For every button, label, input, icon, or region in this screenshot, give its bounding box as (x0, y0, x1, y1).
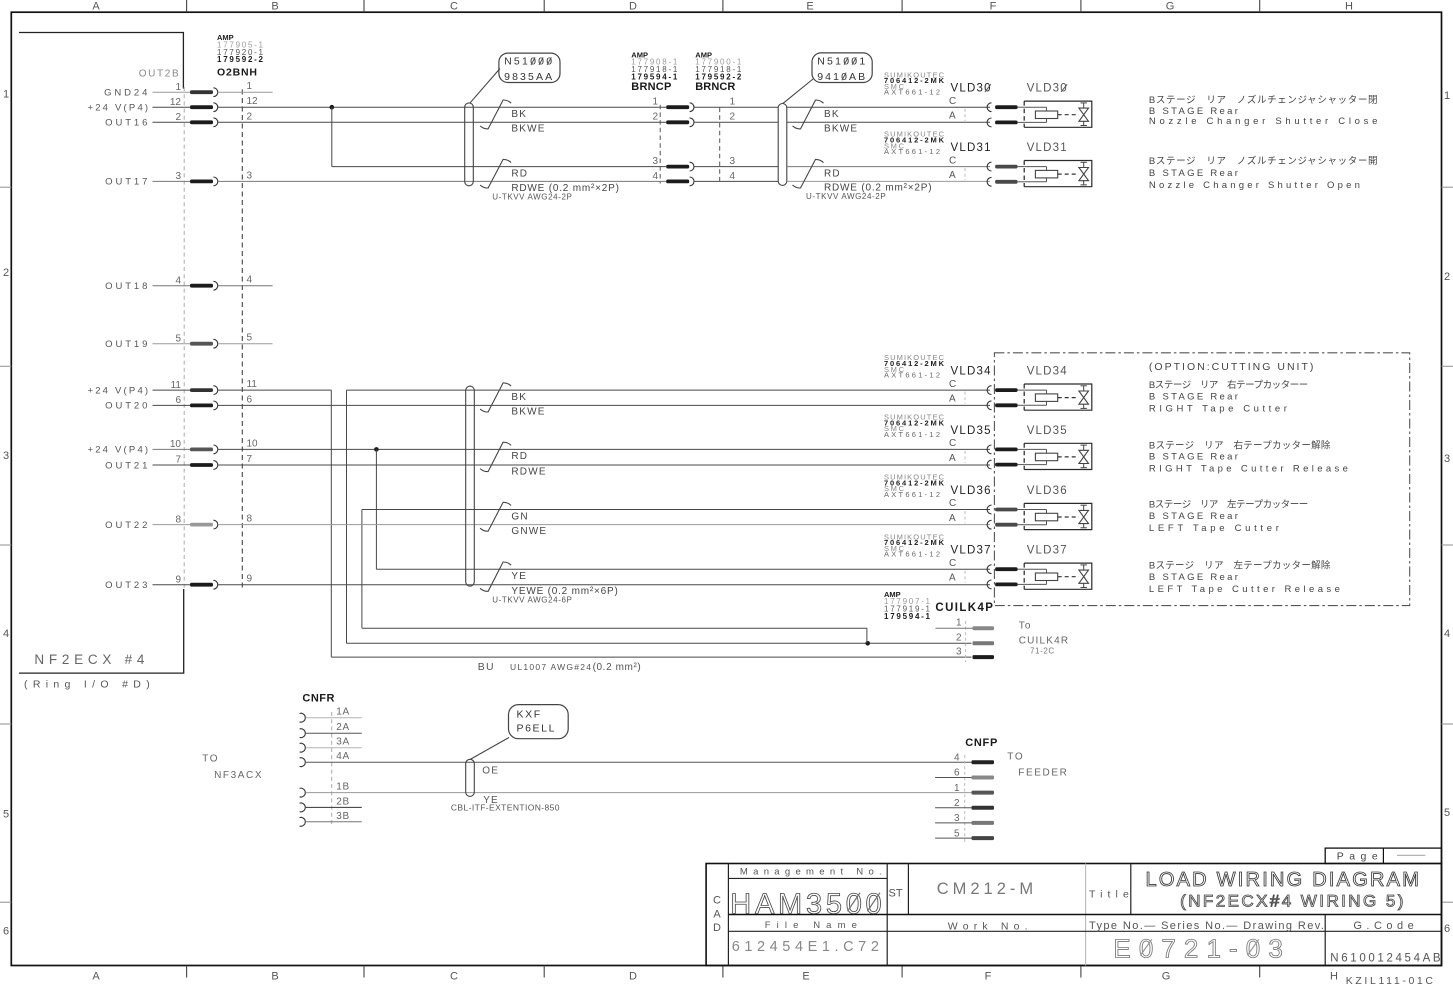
svg-text:VLD36: VLD36 (951, 485, 992, 497)
svg-text:OUT16: OUT16 (105, 118, 150, 129)
svg-text:VLD36: VLD36 (1027, 485, 1068, 497)
svg-text:E0721-03: E0721-03 (1113, 934, 1282, 964)
junction CUILK4P pin2 node (865, 641, 870, 646)
svg-text:8: 8 (247, 514, 253, 525)
svg-text:VLD34: VLD34 (1027, 366, 1068, 378)
svg-text:10: 10 (247, 438, 259, 449)
svg-text:GNWE: GNWE (511, 526, 547, 537)
svg-text:4: 4 (175, 275, 181, 286)
svg-text:VLD31: VLD31 (951, 142, 992, 154)
svg-text:RD: RD (824, 168, 841, 179)
svg-text:OUT18: OUT18 (105, 281, 150, 292)
svg-text:3A: 3A (336, 737, 350, 748)
svg-text:B STAGE Rear: B STAGE Rear (1149, 511, 1238, 522)
VLD37 contact A (987, 580, 991, 589)
solenoid valve VLD30 (1024, 101, 1092, 127)
cable tag KXF P6ELL (509, 705, 569, 739)
svg-text:7: 7 (247, 454, 253, 465)
svg-text:Bステージ リア 右テープカッターー: Bステージ リア 右テープカッターー (1149, 379, 1308, 391)
svg-text:OE: OE (482, 765, 499, 776)
svg-text:9: 9 (247, 574, 253, 585)
solenoid valve VLD36 (1024, 503, 1092, 529)
svg-text:BKWE: BKWE (511, 407, 545, 418)
frame zone ticks (0, 186, 11, 188)
svg-text:C: C (949, 379, 956, 390)
svg-text:A: A (949, 111, 956, 122)
svg-text:CBL-ITF-EXTENTION-850: CBL-ITF-EXTENTION-850 (451, 802, 560, 812)
svg-text:5: 5 (3, 809, 9, 821)
svg-text:A: A (92, 1, 100, 13)
solenoid valve VLD34 (1024, 384, 1092, 410)
title block vertical dividers (727, 864, 729, 966)
svg-text:RD: RD (511, 451, 528, 462)
svg-text:BKWE: BKWE (824, 124, 858, 135)
svg-text:A: A (949, 453, 956, 464)
svg-text:AXT661-12: AXT661-12 (884, 371, 940, 380)
svg-text:BRNCR: BRNCR (695, 81, 735, 93)
svg-text:3: 3 (247, 170, 253, 181)
option cutting unit dash-dot box (994, 353, 1409, 606)
BRNCP dashed boundary (659, 105, 661, 184)
svg-text:1: 1 (954, 783, 960, 794)
svg-text:+24 V(P4): +24 V(P4) (87, 103, 150, 114)
wire +24V pin12 to BRNCP pin1 (BK) (218, 106, 666, 108)
svg-text:(OPTION:CUTTING UNIT): (OPTION:CUTTING UNIT) (1149, 361, 1314, 373)
svg-text:CUILK4R: CUILK4R (1019, 636, 1070, 647)
svg-text:D: D (629, 971, 637, 983)
svg-text:4: 4 (3, 628, 9, 640)
VLD36 connector dashed boundary (964, 511, 966, 523)
svg-text:LEFT Tape Cutter Release: LEFT Tape Cutter Release (1149, 584, 1340, 595)
O2BNH board-side dashed boundary (183, 87, 185, 590)
VLD37 contact C (987, 565, 991, 574)
svg-text:Bステージ リア 左テープカッター解除: Bステージ リア 左テープカッター解除 (1149, 560, 1331, 572)
svg-text:A: A (949, 170, 956, 181)
svg-text:BU: BU (478, 661, 495, 673)
svg-text:OUT19: OUT19 (105, 339, 150, 350)
svg-text:C: C (949, 438, 956, 449)
svg-text:1: 1 (1444, 90, 1450, 102)
wire OUT21 to VLD35 A (RDWE) (218, 464, 990, 466)
svg-text:2B: 2B (336, 796, 350, 807)
svg-text:C: C (450, 1, 458, 13)
svg-text:OUT20: OUT20 (105, 401, 150, 412)
svg-text:4: 4 (730, 171, 736, 182)
title block outline (706, 864, 1441, 966)
wire +24V pin10 to VLD35 C (RD) (218, 448, 990, 450)
wire OUT23 to VLD37 A (YEWE) (218, 584, 990, 586)
svg-text:OUT22: OUT22 (105, 520, 150, 531)
cable sheath marker 6P cable (466, 386, 475, 586)
svg-text:AXT661-12: AXT661-12 (884, 550, 940, 559)
svg-text:C: C (450, 971, 458, 983)
cable sheath marker N51001 (778, 104, 787, 186)
VLD35 contact A (987, 460, 991, 469)
svg-text:12: 12 (170, 97, 182, 108)
cable tag N51001 9410AB (812, 53, 872, 83)
svg-text:OUT2B: OUT2B (139, 69, 179, 80)
svg-text:OUT23: OUT23 (105, 580, 150, 591)
svg-text:A: A (713, 908, 721, 920)
svg-text:VLD35: VLD35 (1027, 425, 1068, 437)
svg-text:A: A (92, 971, 100, 983)
svg-text:H: H (1330, 971, 1338, 983)
cable sheath marker N51000 (465, 103, 474, 186)
wire designation BK/BKWE mid (480, 383, 511, 412)
CNFR pin 4A (300, 758, 306, 767)
svg-text:TO: TO (202, 754, 219, 765)
NF2ECX #4 board outline (19, 33, 183, 89)
svg-text:AXT661-12: AXT661-12 (884, 147, 940, 156)
svg-text:5: 5 (247, 333, 253, 344)
cable sheath marker KXF (466, 759, 475, 796)
svg-text:B: B (271, 971, 278, 983)
svg-text:A: A (949, 513, 956, 524)
svg-text:1: 1 (175, 82, 181, 93)
junction +24V pin10 node (374, 447, 379, 452)
VLD37 connector dashed boundary (964, 571, 966, 583)
svg-text:6: 6 (1444, 923, 1450, 935)
svg-text:H: H (1345, 1, 1353, 13)
svg-text:U-TKVV AWG24-2P: U-TKVV AWG24-2P (492, 192, 572, 201)
VLD36 contact C (987, 505, 991, 514)
svg-text:1: 1 (730, 97, 736, 108)
VLD34 contact A (987, 401, 991, 410)
junction +24V node (330, 105, 335, 110)
svg-text:B STAGE Rear: B STAGE Rear (1149, 572, 1238, 583)
wire OUT20 to VLD34 A (BKWE) (218, 404, 990, 406)
svg-text:3: 3 (954, 813, 960, 824)
svg-text:D: D (713, 922, 721, 934)
CUILK4P dashed boundary (965, 621, 967, 662)
svg-text:AXT661-12: AXT661-12 (884, 88, 940, 97)
svg-text:GND24: GND24 (104, 88, 150, 99)
svg-text:2: 2 (956, 633, 962, 644)
wire +24V pin11 feed (218, 389, 331, 391)
svg-text:N610012454AB: N610012454AB (1330, 953, 1441, 965)
svg-text:3: 3 (730, 156, 736, 167)
svg-text:BK: BK (511, 392, 527, 403)
svg-text:5: 5 (175, 333, 181, 344)
svg-text:NF2ECX #4: NF2ECX #4 (34, 652, 144, 667)
CNFR pin 3B (300, 817, 306, 826)
CNFP pin 6 (935, 777, 971, 779)
svg-text:3: 3 (956, 646, 962, 657)
svg-text:2A: 2A (336, 722, 350, 733)
svg-text:5: 5 (1444, 807, 1450, 819)
svg-text:A: A (949, 573, 956, 584)
wire OUT17 to BRNCP pin4 (RDWE) (218, 180, 666, 182)
svg-text:3: 3 (1444, 453, 1450, 465)
wire designation BK/BKWE left (480, 100, 511, 129)
svg-text:3: 3 (3, 450, 9, 462)
svg-text:6: 6 (954, 768, 960, 779)
VLD30 contact A (987, 118, 991, 127)
wire designation RD/RDWE mid (480, 442, 511, 471)
HAM3500 zero slashes (848, 893, 861, 912)
svg-text:ST: ST (889, 887, 903, 899)
svg-text:7: 7 (175, 455, 181, 466)
CNFR pin 1A (300, 713, 306, 722)
CNFR pin 3A (300, 743, 306, 752)
svg-text:FEEDER: FEEDER (1018, 767, 1068, 778)
svg-text:2: 2 (3, 267, 9, 279)
CNFP dashed boundary (964, 755, 966, 843)
CNFP pin 3 (935, 822, 971, 824)
CNFR pin 2A (300, 729, 306, 738)
svg-text:2: 2 (1444, 271, 1450, 283)
svg-text:B STAGE Rear: B STAGE Rear (1149, 391, 1238, 402)
svg-text:U-TKVV AWG24-6P: U-TKVV AWG24-6P (492, 596, 572, 605)
svg-text:OUT21: OUT21 (105, 460, 150, 471)
svg-text:YE: YE (511, 571, 527, 582)
svg-text:12: 12 (247, 96, 259, 107)
solenoid valve VLD35 (1024, 443, 1092, 469)
svg-text:3: 3 (652, 156, 658, 167)
wire RD row to BRNCP pin3 (332, 166, 666, 168)
svg-text:F: F (990, 1, 997, 13)
VLD34 contact C (987, 386, 991, 395)
title block horizontal dividers (728, 877, 887, 879)
svg-text:1: 1 (247, 81, 253, 92)
wire stub pin 1 GND24 (218, 91, 273, 93)
CNFR dashed boundary (331, 712, 333, 827)
svg-text:AXT661-12: AXT661-12 (884, 490, 940, 499)
svg-text:E: E (806, 1, 813, 13)
svg-text:B STAGE Rear: B STAGE Rear (1149, 168, 1238, 179)
svg-text:Bステージ リア 左テープカッターー: Bステージ リア 左テープカッターー (1149, 499, 1308, 511)
svg-text:AXT661-12: AXT661-12 (884, 430, 940, 439)
svg-text:11: 11 (247, 379, 258, 390)
svg-text:BK: BK (511, 109, 527, 120)
wire GN VLD36 C loop (362, 509, 990, 511)
svg-text:VLD31: VLD31 (1027, 142, 1068, 154)
svg-text:NF3ACX: NF3ACX (214, 770, 263, 781)
wire designation YE/YEWE (480, 562, 511, 591)
svg-text:1: 1 (3, 89, 9, 101)
svg-text:A: A (949, 394, 956, 405)
wire +24V pin10 drop to VLD37 C (375, 449, 377, 569)
svg-text:6: 6 (3, 926, 9, 938)
solenoid valve VLD37 (1024, 563, 1092, 589)
svg-text:C: C (949, 155, 956, 166)
svg-text:To: To (1019, 621, 1032, 632)
wire designation BK/BKWE right (793, 100, 824, 129)
BRNCR dashed boundary (719, 108, 721, 184)
wires BRNCR to VLD30/31 (787, 106, 990, 108)
wire OUT16 to BRNCP pin2 (BKWE) (218, 121, 666, 123)
wire BK VLD34 C from CUILK4P pin2 (347, 389, 991, 391)
CNFP pin 5 (935, 837, 971, 839)
svg-text:P6ELL: P6ELL (517, 723, 557, 735)
svg-text:VLD35: VLD35 (951, 425, 992, 437)
wire YE VLD37 C (376, 568, 990, 570)
svg-text:1: 1 (956, 617, 962, 628)
VLD30 contact C (987, 103, 991, 112)
VLD31 contact A (987, 177, 991, 186)
wire designation RD/RDWE left (480, 159, 511, 188)
VLD31 contact C (987, 162, 991, 171)
wire +24V drop to RD row (331, 107, 333, 166)
svg-text:KZIL111-01C: KZIL111-01C (1346, 975, 1434, 986)
VLD35 connector dashed boundary (964, 451, 966, 463)
svg-text:B STAGE Rear: B STAGE Rear (1149, 452, 1238, 463)
VLD31 connector dashed boundary (964, 168, 966, 180)
svg-text:4: 4 (954, 752, 960, 763)
wire designation RD/RDWE right (793, 159, 824, 188)
cable tag N51000 9835AA (499, 53, 560, 82)
VLD36 contact A (987, 520, 991, 529)
svg-text:RD: RD (511, 168, 528, 179)
svg-text:71-2C: 71-2C (1030, 647, 1055, 656)
svg-text:BKWE: BKWE (511, 124, 545, 135)
svg-text:2: 2 (175, 112, 181, 123)
svg-text:VLD30: VLD30 (1027, 83, 1068, 95)
svg-text:CNFP: CNFP (965, 737, 997, 749)
svg-text:BK: BK (824, 109, 840, 120)
svg-text:LOAD WIRING DIAGRAM: LOAD WIRING DIAGRAM (1146, 869, 1419, 891)
svg-text:3B: 3B (336, 811, 350, 822)
svg-text:(0.2 mm²): (0.2 mm²) (593, 662, 642, 673)
CNFR pin 2B (300, 803, 306, 812)
svg-text:4: 4 (1444, 628, 1450, 640)
svg-text:G: G (1166, 1, 1175, 13)
svg-text:2: 2 (730, 112, 736, 123)
svg-text:VLD37: VLD37 (951, 545, 992, 557)
svg-text:Bステージ リア ノズルチェンジャシャッター開: Bステージ リア ノズルチェンジャシャッター開 (1149, 155, 1378, 167)
svg-text:6: 6 (247, 394, 253, 405)
E0721 zero slashes (1140, 939, 1152, 955)
svg-text:4: 4 (247, 275, 253, 286)
svg-text:O2BNH: O2BNH (217, 67, 257, 79)
wire designation GN/GNWE (480, 502, 511, 531)
svg-text:GN: GN (511, 511, 528, 522)
svg-text:E: E (802, 971, 809, 983)
svg-text:BRNCP: BRNCP (631, 81, 671, 93)
svg-text:B: B (271, 1, 278, 13)
wire OUT22 to VLD36 A (GNWE) (218, 524, 990, 526)
svg-text:TO: TO (1007, 752, 1024, 763)
CNFP pin 2 (935, 807, 971, 809)
svg-text:G: G (1162, 971, 1171, 983)
svg-text:Bステージ リア 右テープカッター解除: Bステージ リア 右テープカッター解除 (1149, 439, 1331, 451)
VLD30 connector dashed boundary (964, 109, 966, 121)
wire stub pin 4 OUT18 (218, 285, 273, 287)
svg-text:F: F (985, 971, 992, 983)
wire +24V pin11 drop to CUILK4P pin3 (330, 390, 332, 657)
svg-text:C: C (713, 895, 721, 907)
svg-text:Type No.— Series No.— Drawing: Type No.— Series No.— Drawing Rev. (1089, 920, 1324, 932)
svg-text:VLD37: VLD37 (1027, 545, 1068, 557)
svg-text:4A: 4A (336, 751, 350, 762)
svg-text:VLD34: VLD34 (951, 366, 992, 378)
svg-text:Title: Title (1089, 889, 1129, 901)
slashed zeros on cable tags and VLD30 labels (531, 57, 535, 65)
svg-text:5: 5 (954, 828, 960, 839)
svg-text:1A: 1A (336, 707, 350, 718)
O2BNH mating-side dashed boundary (241, 90, 243, 590)
svg-text:C: C (949, 498, 956, 509)
svg-text:+24 V(P4): +24 V(P4) (87, 445, 150, 456)
svg-text:KXF: KXF (517, 708, 542, 720)
svg-text:CNFR: CNFR (302, 693, 334, 705)
svg-text:RDWE: RDWE (511, 466, 546, 477)
svg-text:9410AB: 9410AB (817, 71, 865, 83)
svg-text:1: 1 (652, 97, 658, 108)
svg-text:OUT17: OUT17 (105, 177, 150, 188)
svg-text:+24 V(P4): +24 V(P4) (87, 385, 150, 396)
solenoid valve VLD31 (1024, 161, 1092, 187)
svg-text:C: C (949, 96, 956, 107)
svg-text:VLD30: VLD30 (951, 83, 992, 95)
VLD34 connector dashed boundary (964, 392, 966, 404)
svg-text:3: 3 (175, 171, 181, 182)
svg-text:9835AA: 9835AA (504, 71, 552, 83)
svg-text:2: 2 (954, 798, 960, 809)
svg-text:8: 8 (175, 514, 181, 525)
CNFR pin 1B (300, 788, 306, 797)
page number box (1325, 848, 1441, 863)
svg-text:6: 6 (175, 395, 181, 406)
svg-text:11: 11 (171, 380, 182, 391)
svg-text:1B: 1B (336, 782, 350, 793)
svg-text:U-TKVV AWG24-2P: U-TKVV AWG24-2P (806, 192, 886, 201)
svg-text:10: 10 (170, 439, 182, 450)
svg-text:9: 9 (175, 574, 181, 585)
svg-text:Bステージ リア ノズルチェンジャシャッター閉: Bステージ リア ノズルチェンジャシャッター閉 (1149, 94, 1378, 106)
wire stub pin 5 OUT19 (218, 343, 273, 345)
svg-text:C: C (949, 558, 956, 569)
svg-text:4: 4 (652, 171, 658, 182)
svg-text:D: D (629, 1, 637, 13)
svg-text:2: 2 (652, 112, 658, 123)
VLD35 contact C (987, 445, 991, 454)
svg-text:2: 2 (247, 111, 253, 122)
